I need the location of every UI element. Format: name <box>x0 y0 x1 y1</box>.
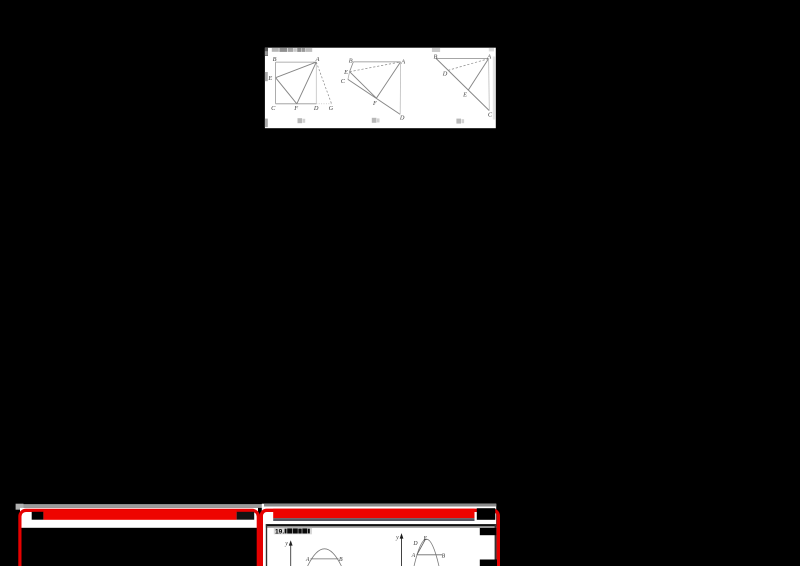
thick red bar left box <box>43 510 236 520</box>
black block right end <box>237 512 255 520</box>
svg-text:E: E <box>267 75 272 82</box>
svg-text:F: F <box>372 100 377 107</box>
segment BC through D and E fig3 <box>436 58 489 110</box>
square side BA (top) <box>276 61 317 63</box>
segment AC fig3 <box>488 59 491 111</box>
CJK text blobs (本题8分) <box>285 528 310 533</box>
right mini graph axis arrowhead <box>400 533 404 539</box>
panel right light band <box>493 57 495 120</box>
black redaction block upper <box>480 528 496 535</box>
faint header text blobs <box>265 48 494 56</box>
segment EF <box>276 78 297 104</box>
square side CD (bottom) <box>276 103 317 105</box>
inner content box top border gray <box>266 526 496 528</box>
right mini graph segment AE <box>417 539 426 555</box>
svg-text:E: E <box>343 69 348 76</box>
square side AD (right) <box>315 62 317 104</box>
gray top strip right box <box>264 504 496 507</box>
inner content box left border <box>266 524 267 566</box>
top worksheet panel <box>265 48 496 129</box>
black block left end <box>32 512 44 520</box>
svg-text:B: B <box>273 56 277 63</box>
svg-text:19.: 19. <box>275 529 284 536</box>
dashed segment AD fig3 <box>447 59 488 71</box>
svg-text:E: E <box>462 91 467 98</box>
black block top-right of red bar <box>477 508 496 520</box>
svg-text:A: A <box>486 53 491 60</box>
segment AD fig2 <box>399 62 401 115</box>
highlight behind problem number <box>274 528 312 534</box>
svg-text:B: B <box>442 553 446 559</box>
square side BC (left) <box>275 62 277 104</box>
segment CD through F fig2 <box>348 79 400 114</box>
gray corner block left box <box>16 504 24 510</box>
svg-text:A: A <box>400 58 405 65</box>
caption blob fig1 <box>298 118 306 123</box>
left mini graph chord AB <box>311 558 339 560</box>
segment BA fig3 <box>436 57 489 59</box>
svg-text:G: G <box>329 105 334 112</box>
left mini graph y-axis <box>290 544 292 566</box>
segment AE fig3 <box>468 59 489 91</box>
svg-text:D: D <box>313 105 319 112</box>
svg-text:E: E <box>423 536 428 542</box>
segment BE fig2 <box>350 62 354 72</box>
gray top strip left box <box>24 504 263 508</box>
panel left sliver marks <box>265 51 268 127</box>
svg-text:B: B <box>433 53 437 60</box>
white band left box <box>20 508 258 528</box>
svg-text:D: D <box>399 115 405 122</box>
left mini graph parabola <box>308 549 342 566</box>
svg-text:D: D <box>412 541 418 547</box>
dark strip under red bar right box <box>273 518 474 521</box>
svg-text:D: D <box>442 71 448 78</box>
svg-text:A: A <box>305 557 310 563</box>
right mini graph parabola <box>414 539 439 566</box>
dashed segment EA fig2 <box>350 62 401 72</box>
svg-text:A: A <box>315 56 320 63</box>
inner content box top border black <box>266 524 496 526</box>
segment FA <box>297 62 317 104</box>
left mini graph axis arrowhead <box>289 540 293 545</box>
svg-text:B: B <box>339 557 343 563</box>
svg-text:y: y <box>395 535 399 541</box>
right mini graph y-axis <box>401 537 403 566</box>
svg-text:F: F <box>293 105 298 112</box>
segment EC fig2 <box>348 72 350 80</box>
caption blob fig2 <box>372 118 380 123</box>
red rounded border right box <box>261 510 498 566</box>
svg-text:y: y <box>284 541 288 547</box>
red rounded border left box <box>20 510 258 566</box>
dotted extension DG <box>316 103 332 105</box>
svg-text:B: B <box>349 58 353 65</box>
black redaction block lower <box>480 560 497 566</box>
white background right box <box>262 504 496 566</box>
right mini graph chord AB <box>417 554 442 556</box>
segment BA fig2 <box>353 61 400 63</box>
dashed segment AG <box>316 62 331 103</box>
inner content box right border <box>495 524 497 566</box>
segment EA <box>276 62 317 78</box>
caption blob fig3 <box>456 119 464 124</box>
segment EF fig2 <box>350 72 377 99</box>
svg-text:A: A <box>411 553 416 559</box>
thick red bar right box <box>273 509 474 519</box>
segment AF fig2 <box>376 62 400 98</box>
